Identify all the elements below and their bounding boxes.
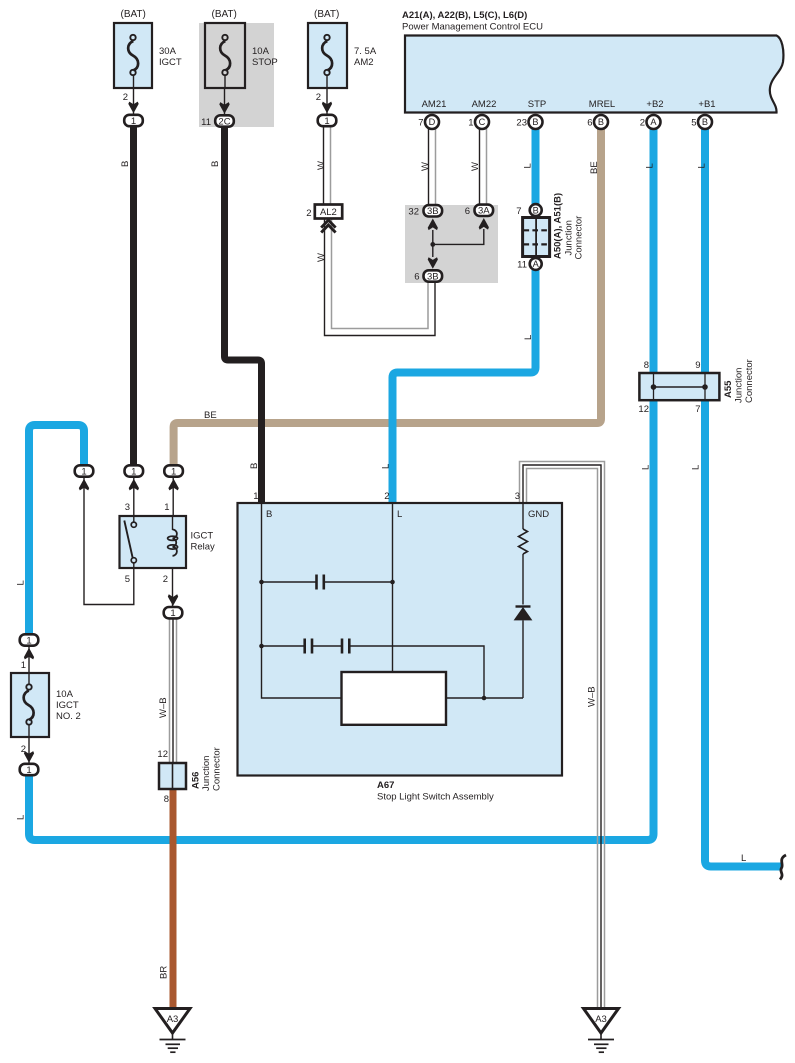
svg-text:BR: BR bbox=[159, 966, 170, 979]
svg-text:STOP: STOP bbox=[252, 57, 278, 68]
wire L (top left from relay branch oval to 10A IGCT NO.2 fuse) bbox=[29, 425, 84, 634]
chevron (in-line connector arrows) bbox=[321, 220, 335, 228]
svg-text:L: L bbox=[523, 163, 534, 168]
svg-text:(BAT): (BAT) bbox=[121, 9, 146, 20]
capacitor C2 / C3 row bbox=[262, 645, 305, 647]
svg-text:B: B bbox=[532, 117, 538, 127]
svg-text:A55: A55 bbox=[723, 380, 734, 398]
svg-text:6: 6 bbox=[414, 272, 419, 283]
svg-text:B: B bbox=[120, 161, 131, 167]
svg-text:STP: STP bbox=[528, 99, 546, 110]
svg-text:5: 5 bbox=[125, 574, 130, 585]
svg-text:3: 3 bbox=[515, 491, 520, 502]
svg-text:5: 5 bbox=[691, 118, 696, 129]
svg-text:L: L bbox=[697, 163, 708, 168]
svg-text:2: 2 bbox=[316, 92, 321, 103]
svg-text:3B: 3B bbox=[427, 206, 439, 217]
A67 internal circuit bbox=[259, 503, 532, 725]
svg-text:D: D bbox=[429, 117, 436, 127]
ECU pin 7 (D) bbox=[425, 115, 439, 129]
thin wire 30A fuse to oval 1 bbox=[133, 88, 135, 115]
svg-text:8: 8 bbox=[644, 360, 649, 371]
svg-text:Connector: Connector bbox=[744, 359, 755, 403]
junction 3A (6) bbox=[475, 205, 494, 216]
gray backdrop around 10A STOP fuse bbox=[199, 23, 274, 127]
svg-text:NO. 2: NO. 2 bbox=[56, 711, 81, 722]
svg-text:6: 6 bbox=[587, 118, 592, 129]
ECU pin 2 (A) bbox=[647, 115, 661, 129]
node line from pin2 bbox=[392, 503, 394, 672]
connector oval 1 above 10A IGCT NO.2 bbox=[24, 648, 34, 660]
junction dot bbox=[430, 242, 435, 247]
svg-text:3B: 3B bbox=[427, 271, 439, 282]
svg-text:Power Management Control ECU: Power Management Control ECU bbox=[402, 22, 543, 33]
svg-text:A3: A3 bbox=[167, 1014, 179, 1025]
svg-text:Stop Light Switch Assembly: Stop Light Switch Assembly bbox=[377, 792, 494, 803]
arrow down into lower 3B bbox=[428, 257, 438, 269]
IGCT relay bbox=[120, 516, 187, 568]
svg-text:L: L bbox=[381, 464, 392, 469]
svg-text:B: B bbox=[598, 117, 604, 127]
thin wire relay pin5 to branch oval bbox=[84, 477, 134, 605]
ground A3 (right) bbox=[584, 1009, 619, 1053]
arrow + oval below fuse bbox=[24, 751, 34, 763]
A67 Stop Light Switch Assembly box bbox=[238, 503, 563, 776]
svg-text:C: C bbox=[479, 117, 486, 127]
wire W (AM2 fuse to AL2) bbox=[324, 128, 331, 206]
svg-text:3A: 3A bbox=[478, 206, 490, 217]
wire L (+B1 vertical, corner, to right edge break) bbox=[705, 129, 781, 867]
svg-text:11: 11 bbox=[201, 117, 211, 128]
thin wire 10A IGCT NO.2 fuse bottom bbox=[28, 737, 30, 764]
diode bbox=[516, 605, 531, 607]
wire L (left vertical + bottom horizontal + up to +B2 / A55 pin 12) bbox=[29, 400, 654, 840]
svg-text:L: L bbox=[691, 465, 702, 470]
wire B (30A IGCT fuse to relay pin 3 oval) bbox=[130, 128, 137, 466]
svg-text:30A: 30A bbox=[159, 46, 177, 57]
node line from pin1 bbox=[262, 503, 342, 698]
junction dots bbox=[259, 580, 264, 585]
svg-text:1: 1 bbox=[26, 635, 31, 646]
svg-text:IGCT: IGCT bbox=[159, 57, 182, 68]
svg-text:L: L bbox=[741, 853, 746, 864]
thin wire 10A STOP fuse to oval 2C bbox=[224, 88, 226, 115]
svg-text:A56: A56 bbox=[191, 772, 202, 789]
svg-text:L: L bbox=[641, 465, 652, 470]
svg-text:Connector: Connector bbox=[574, 216, 585, 260]
svg-text:GND: GND bbox=[528, 509, 549, 520]
svg-text:1: 1 bbox=[21, 660, 26, 671]
ECU pin 23 (B) bbox=[529, 115, 543, 129]
svg-text:W: W bbox=[316, 161, 327, 170]
svg-text:BE: BE bbox=[204, 410, 217, 421]
svg-text:1: 1 bbox=[253, 491, 258, 502]
svg-text:12: 12 bbox=[638, 404, 649, 415]
wire W (AM22 to 3A) bbox=[480, 129, 487, 206]
thin wire relay pin1 from oval bbox=[172, 477, 174, 517]
connector oval 1 (30A fuse) bbox=[124, 115, 143, 126]
wire B (10A STOP fuse to A67 pin 1) bbox=[225, 128, 262, 504]
svg-text:10A: 10A bbox=[56, 689, 74, 700]
svg-text:+B2: +B2 bbox=[646, 99, 663, 110]
svg-text:Junction: Junction bbox=[201, 756, 212, 791]
connector oval 1 (AM2) bbox=[318, 115, 337, 126]
wire L (+B2 from ECU to A55) bbox=[650, 129, 658, 375]
svg-text:IGCT: IGCT bbox=[191, 531, 214, 542]
capacitor C1 bbox=[262, 581, 317, 583]
svg-text:2: 2 bbox=[163, 574, 168, 585]
svg-text:W–B: W–B bbox=[587, 686, 598, 707]
svg-text:3: 3 bbox=[125, 502, 130, 513]
break symbol (+B1 to other page) bbox=[780, 855, 786, 880]
ECU box A21/A22/L5/L6 bbox=[405, 36, 783, 113]
svg-text:1: 1 bbox=[26, 765, 31, 776]
svg-text:L: L bbox=[645, 163, 656, 168]
ECU pin 1 (C) bbox=[475, 115, 489, 129]
svg-text:A3: A3 bbox=[595, 1014, 607, 1025]
svg-text:7: 7 bbox=[418, 118, 423, 129]
svg-text:23: 23 bbox=[516, 118, 527, 129]
thin wire relay pin3 from oval bbox=[133, 477, 135, 522]
svg-text:L: L bbox=[523, 335, 534, 340]
svg-text:IGCT: IGCT bbox=[56, 700, 79, 711]
svg-text:(BAT): (BAT) bbox=[212, 9, 237, 20]
svg-text:A: A bbox=[533, 259, 540, 269]
A55 junction connector bbox=[639, 373, 719, 400]
svg-text:A67: A67 bbox=[377, 780, 394, 791]
wire L (A50 pin 11 to A67 pin 2) bbox=[393, 270, 536, 504]
svg-text:1: 1 bbox=[164, 502, 169, 513]
svg-text:1: 1 bbox=[170, 608, 175, 619]
ECU pin 5 (B) bbox=[698, 115, 712, 129]
svg-text:AM21: AM21 bbox=[422, 99, 447, 110]
svg-text:1: 1 bbox=[468, 118, 473, 129]
svg-text:W: W bbox=[316, 253, 327, 262]
svg-text:B: B bbox=[702, 117, 708, 127]
svg-text:A50(A), A51(B): A50(A), A51(B) bbox=[553, 193, 564, 259]
wire W (AL2 to 3B loop) bbox=[325, 219, 436, 336]
connector oval 2C bbox=[215, 115, 234, 126]
gray backdrop around 3B/3A junction block bbox=[405, 205, 498, 283]
svg-text:AM22: AM22 bbox=[472, 99, 497, 110]
svg-text:8: 8 bbox=[164, 794, 169, 805]
svg-text:L: L bbox=[16, 815, 27, 820]
fuse 7.5A AM2 bbox=[308, 23, 347, 88]
resistor bbox=[522, 503, 524, 529]
svg-text:L: L bbox=[16, 580, 27, 585]
wire BR (A56 pin 8 to ground A3) bbox=[170, 789, 177, 1008]
svg-text:1: 1 bbox=[131, 116, 136, 127]
svg-text:1: 1 bbox=[171, 466, 176, 477]
thin wire 10A IGCT NO.2 fuse top bbox=[28, 646, 30, 673]
A56 junction connector bbox=[159, 763, 186, 789]
junction 3B (32) bbox=[424, 205, 443, 216]
svg-text:A21(A), A22(B), L5(C), L6(D): A21(A), A22(B), L5(C), L6(D) bbox=[402, 10, 527, 21]
svg-text:L: L bbox=[397, 509, 402, 520]
svg-text:W–B: W–B bbox=[158, 697, 169, 718]
thin wire relay pin2 to oval bbox=[172, 555, 174, 607]
arrow + oval below relay pin 2 bbox=[168, 594, 178, 606]
fuse 30A IGCT bbox=[114, 23, 152, 88]
fuse 10A STOP bbox=[205, 23, 245, 88]
svg-text:B: B bbox=[249, 463, 260, 469]
svg-text:W: W bbox=[470, 162, 481, 171]
svg-text:B: B bbox=[533, 205, 539, 215]
svg-text:1: 1 bbox=[324, 116, 329, 127]
svg-text:B: B bbox=[266, 509, 272, 520]
ground A3 (left) bbox=[155, 1009, 190, 1053]
wire W-B (A67 pin 3 GND loop to right ground) bbox=[520, 462, 605, 1009]
wires inside junction block bbox=[432, 230, 434, 257]
svg-text:W: W bbox=[420, 162, 431, 171]
svg-text:AM2: AM2 bbox=[354, 57, 374, 68]
junction connector A50(A), A51(B) bbox=[530, 204, 542, 216]
svg-text:1: 1 bbox=[131, 466, 136, 477]
fuse 10A IGCT NO.2 bbox=[11, 673, 49, 737]
arrow into oval bbox=[322, 102, 332, 114]
svg-text:6: 6 bbox=[465, 206, 470, 217]
svg-text:+B1: +B1 bbox=[698, 99, 715, 110]
arrow into oval bbox=[128, 102, 138, 114]
svg-text:Junction: Junction bbox=[734, 368, 745, 403]
junction 3B (6) lower bbox=[424, 270, 443, 281]
thin wire AM2 fuse to oval 1 bbox=[326, 88, 328, 115]
svg-text:2: 2 bbox=[384, 491, 389, 502]
svg-text:7: 7 bbox=[516, 206, 521, 217]
svg-text:2: 2 bbox=[640, 118, 645, 129]
svg-text:B: B bbox=[210, 161, 221, 167]
arrow into oval 2C bbox=[219, 102, 229, 114]
svg-text:BE: BE bbox=[589, 161, 600, 174]
svg-text:A: A bbox=[650, 117, 657, 127]
svg-text:7. 5A: 7. 5A bbox=[354, 46, 377, 57]
svg-text:(BAT): (BAT) bbox=[314, 9, 339, 20]
arrow up into 3B bbox=[428, 219, 438, 231]
connector oval 1 (branch to pin5) bbox=[79, 479, 89, 491]
svg-text:7: 7 bbox=[695, 404, 700, 415]
svg-text:2: 2 bbox=[123, 92, 128, 103]
svg-text:11: 11 bbox=[517, 259, 527, 270]
svg-text:2: 2 bbox=[306, 208, 311, 219]
arrow up into 3A bbox=[479, 218, 489, 230]
bottom link to switch block bbox=[446, 697, 523, 699]
connector oval 1 (relay pin1 / BE wire) bbox=[168, 479, 178, 491]
svg-text:2C: 2C bbox=[218, 116, 230, 127]
switch block bbox=[342, 672, 447, 725]
svg-text:Relay: Relay bbox=[191, 542, 216, 553]
wire BE (MREL to relay pin 1 oval) bbox=[174, 129, 601, 466]
wire W-B (relay pin 2 to A56 pin 12) bbox=[170, 619, 177, 763]
connector oval 1 (relay pin3 / B wire) bbox=[129, 479, 139, 491]
ECU pin 6 (B) bbox=[594, 115, 608, 129]
svg-text:MREL: MREL bbox=[589, 99, 615, 110]
wire W (AM21 to 3B) bbox=[429, 129, 436, 206]
wire L (STP to junction connector A50) bbox=[532, 129, 540, 205]
svg-text:32: 32 bbox=[408, 206, 419, 217]
svg-text:12: 12 bbox=[157, 749, 168, 760]
svg-text:Connector: Connector bbox=[212, 747, 223, 791]
svg-text:10A: 10A bbox=[252, 46, 270, 57]
svg-text:AL2: AL2 bbox=[320, 207, 337, 218]
svg-text:9: 9 bbox=[695, 360, 700, 371]
svg-text:1: 1 bbox=[81, 466, 86, 477]
